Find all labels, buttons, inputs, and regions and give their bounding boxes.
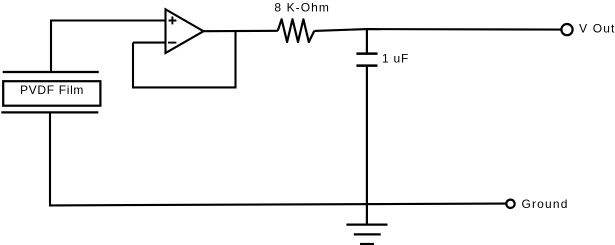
PVDF film sensor bottom plate [1,111,98,113]
resistor R 8 K-Ohm zigzag [278,19,315,42]
terminal circle V Out [561,24,572,35]
op-amp minus input marking [168,42,176,44]
ground symbol bar 2 [354,233,381,235]
wire: resistor to V Out terminal with capacitor tap [314,29,560,31]
wire: inverting input from feedback [133,42,166,44]
capacitor C 1uF top plate [356,52,377,55]
ground symbol bar 3 [360,243,374,245]
wire: PVDF bottom plate down and along bottom to Ground terminal [50,112,506,205]
op-amp U1 triangle body [166,9,204,53]
wire: op-amp output to resistor [204,30,278,33]
PVDF film sensor top plate [3,71,99,73]
terminal circle Ground [506,200,514,208]
svg-text:V Out: V Out [579,21,615,35]
capacitor C 1uF bottom plate [356,64,377,67]
wire: capacitor bottom plate down to ground symbol [366,66,368,225]
svg-text:Ground: Ground [522,197,568,211]
wire: op-amp non-inverting input from PVDF top plate [51,21,166,72]
op-amp plus input marking [169,17,177,25]
PVDF film sensor body box [3,81,100,106]
svg-text:8 K-Ohm: 8 K-Ohm [274,1,329,15]
wire: feedback loop from output to inverting input [133,31,236,87]
ground symbol bar 1 [346,224,387,226]
svg-text:1 uF: 1 uF [382,52,408,66]
svg-text:PVDF Film: PVDF Film [20,83,83,97]
wire: junction down to capacitor top plate [366,29,368,53]
